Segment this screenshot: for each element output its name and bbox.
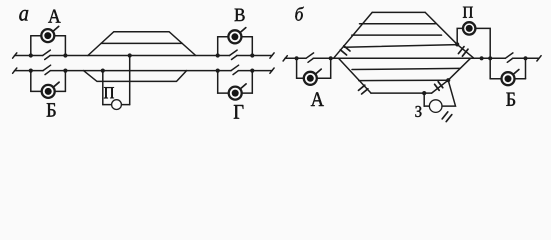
node upper rail x130 xyxy=(128,53,132,57)
switch S5 slash xyxy=(308,58,313,62)
label G (Cyrillic Г) xyxy=(234,105,244,119)
cut tick right end upper rail xyxy=(270,53,274,58)
wire device V top left xyxy=(218,36,229,38)
wire feed P bottom right xyxy=(121,104,129,106)
cut tick left end lower rail xyxy=(13,68,17,73)
siding track inner line top xyxy=(101,42,182,44)
siding track 6 (b) xyxy=(352,68,460,69)
node upper rail x65 xyxy=(63,53,67,57)
switch S5 on main line (blade) xyxy=(306,53,314,58)
node P on diagonal (b) xyxy=(455,42,459,46)
wire device G bottom right xyxy=(241,92,252,94)
wire device Z bottom left (b) xyxy=(424,105,429,107)
node lower rail x252 xyxy=(250,69,254,73)
switch S2 slash xyxy=(232,56,237,60)
wire device A top right xyxy=(54,35,65,37)
node lower rail x218 xyxy=(216,69,220,73)
relay B xyxy=(42,85,55,98)
node main line x490 (b) xyxy=(488,56,492,60)
wire device A left vertical xyxy=(30,36,32,56)
switch S2 on upper rail (blade) xyxy=(230,50,238,55)
wire lower rail left segment xyxy=(15,70,44,72)
wire device V left vertical xyxy=(217,37,219,56)
wire device B bottom right xyxy=(55,90,66,92)
throat diagonal upper-left (b) xyxy=(334,12,373,58)
feed transformer P xyxy=(112,100,122,110)
insulating joint double slash upper-left xyxy=(340,46,350,55)
relay A (b) xyxy=(304,72,317,85)
wire device G right vertical xyxy=(251,71,253,94)
node upper rail x218 xyxy=(216,53,220,57)
switch S6 on main line (blade) xyxy=(505,53,513,58)
relay G xyxy=(229,87,242,100)
wire device B right vertical (b) xyxy=(525,58,527,78)
relay B (b) xyxy=(502,72,515,85)
wire feed P right vertical xyxy=(129,56,131,105)
throat diagonal lower-right (b) xyxy=(432,58,471,93)
node lower rail x65 xyxy=(63,69,67,73)
wire device G left vertical xyxy=(217,71,219,94)
wire main line segment to left vertex xyxy=(313,57,331,59)
node right vertex (b) xyxy=(480,56,484,60)
label b (diagram b, italic) xyxy=(295,7,303,21)
feed transformer P (b) xyxy=(463,22,475,34)
cut double slash on Z wire (b) xyxy=(442,112,452,122)
wire main line left segment (diagram b) xyxy=(285,57,306,59)
relay A arrow slash xyxy=(53,26,59,31)
node Z on bottom edge (b) xyxy=(422,91,426,95)
label A (b) xyxy=(311,92,324,106)
wire device G bottom left xyxy=(218,92,229,94)
label A xyxy=(48,10,61,23)
cut tick right end main line xyxy=(537,56,541,61)
insulating joint double slash upper-right xyxy=(458,47,468,57)
wire device A left vertical (b) xyxy=(296,58,298,78)
station loop top (diagram a) xyxy=(88,32,196,56)
wire feed P left vertical xyxy=(102,71,104,105)
wire feed P right to main line (b) xyxy=(475,28,490,58)
wire device Z left vertical (b) xyxy=(423,93,425,106)
switch S3 on lower rail (blade) xyxy=(43,65,51,70)
node lower rail x103 xyxy=(101,69,105,73)
throat diagonal lower-left (b) xyxy=(339,58,372,93)
switch S6 slash xyxy=(507,58,512,62)
wire upper rail middle segment xyxy=(50,55,230,57)
node lower rail x31 xyxy=(29,69,33,73)
switch S4 on lower rail (blade) xyxy=(231,65,239,70)
wire feed P bottom left xyxy=(103,104,112,106)
relay B arrow slash (b) xyxy=(513,70,519,75)
relay V xyxy=(228,30,241,43)
station hexagon top edge (b) xyxy=(372,11,425,13)
relay A arrow slash (b) xyxy=(315,69,321,74)
label a (diagram a, italic) xyxy=(19,10,28,21)
wire lower rail right segment xyxy=(238,70,272,72)
station hexagon bottom edge (b) xyxy=(371,92,432,94)
node upper rail x31 xyxy=(29,53,33,57)
wire main line right segment xyxy=(513,57,539,59)
cut tick right end lower rail xyxy=(270,68,274,73)
wire device A top left xyxy=(31,35,42,37)
throat diagonal upper-right (b) xyxy=(425,12,474,58)
siding track 7 (b) xyxy=(359,79,448,81)
label V (Cyrillic В) xyxy=(235,9,245,21)
wire device B right vertical xyxy=(64,71,66,92)
node main line x525 (b) xyxy=(523,56,527,60)
insulating joint double slash lower-right xyxy=(435,82,443,91)
switch S1 on upper rail (blade) xyxy=(43,50,51,55)
wire device A right vertical xyxy=(64,36,66,56)
label B (Cyrillic Б) xyxy=(47,103,56,116)
wire device V top right xyxy=(241,36,252,38)
wire device A bottom left (b) xyxy=(297,77,305,79)
wire device B bottom left (b) xyxy=(490,78,502,80)
wire lower rail middle segment xyxy=(50,70,231,72)
insulating joint double slash lower-left xyxy=(359,85,368,94)
switch S3 slash xyxy=(45,71,50,75)
wire device B bottom left xyxy=(31,90,42,92)
wire device Z bottom right (b) xyxy=(442,80,456,106)
label Z (b) (Cyrillic З) xyxy=(415,106,421,117)
node Z on track 7 (b) xyxy=(446,78,450,82)
wire upper rail left segment xyxy=(15,55,43,57)
station loop bottom (diagram a) xyxy=(84,71,187,82)
wire device A bottom right (b) xyxy=(317,77,331,79)
siding track 2 (b) xyxy=(360,23,436,25)
node main line x296 (b) xyxy=(295,56,299,60)
node upper rail x252 xyxy=(250,53,254,57)
wire device B bottom right (b) xyxy=(514,78,525,80)
wire main line through station xyxy=(331,57,491,59)
relay A xyxy=(41,29,54,42)
relay V arrow slash xyxy=(240,28,246,33)
label P (b) (Cyrillic П) xyxy=(463,7,473,18)
wire main line segment to right switch xyxy=(490,57,505,59)
signal device Z (b) xyxy=(429,100,442,113)
siding track 4 (b) xyxy=(344,45,457,48)
label P (Cyrillic П) xyxy=(104,87,114,98)
wire device B left vertical xyxy=(30,71,32,92)
switch S4 slash xyxy=(233,71,238,75)
node left vertex (b) xyxy=(329,56,333,60)
wire device A right vertical (b) xyxy=(330,58,332,78)
wire device V right vertical xyxy=(251,37,253,56)
cut tick left end upper rail xyxy=(13,53,17,58)
wire device B left vertical (b) xyxy=(489,58,491,78)
wire upper rail right segment xyxy=(237,55,272,57)
label B (b) (Cyrillic Б) xyxy=(506,93,515,106)
switch S1 slash xyxy=(45,56,50,60)
wire feed P down from circle left (b) xyxy=(457,28,463,44)
cut tick left end main line xyxy=(283,56,287,61)
siding track 3 (b) xyxy=(352,34,442,36)
relay B arrow slash xyxy=(53,82,59,87)
relay G arrow slash xyxy=(240,84,246,89)
